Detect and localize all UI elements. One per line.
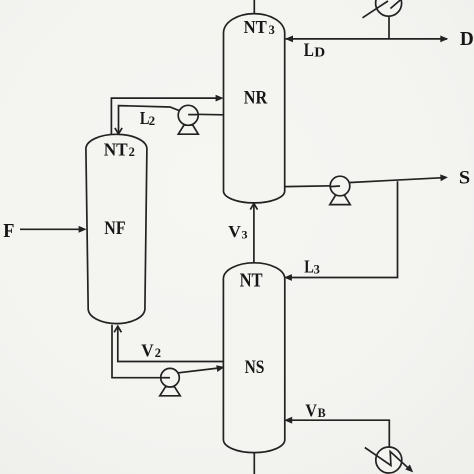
pump P3 on NF bottoms line <box>160 387 180 396</box>
svg-text:L: L <box>304 257 314 277</box>
arrowhead into NR left side <box>216 95 224 102</box>
arrowhead down into NT2 top <box>115 128 122 134</box>
arrowhead into NS left side <box>216 365 224 372</box>
svg-text:D: D <box>460 29 474 50</box>
arrowhead into NT top (L3) <box>284 274 292 281</box>
arrowhead up into NF bottom <box>114 326 121 332</box>
wire: NS bottoms line (cropped at bottom) <box>253 453 255 474</box>
wire: sidedraw S line through pump <box>285 178 441 187</box>
svg-text:V: V <box>141 340 153 360</box>
arrowhead to S <box>440 174 448 181</box>
wire: V2 vapor from NS to NF bottom <box>118 326 224 361</box>
wire: V3 vapor from NT to NR bottom <box>253 204 255 263</box>
arrowhead of reboiler heat arrow <box>405 465 413 473</box>
svg-text:2: 2 <box>129 145 135 159</box>
wire: NF bottoms through pump into NS <box>112 325 218 378</box>
svg-text:3: 3 <box>269 23 275 37</box>
wire: reflux LD / distillate D line <box>286 38 447 40</box>
svg-text:NT: NT <box>244 17 268 37</box>
wire: condenser outlet drop <box>388 15 390 39</box>
svg-text:2: 2 <box>149 113 156 128</box>
svg-text:B: B <box>318 405 326 420</box>
column NF (vessel with NT2 trays) <box>86 134 147 323</box>
reboiler (heat exchanger with heat arrow) <box>376 447 402 473</box>
column NR (vessel with NT3 trays) <box>224 14 285 203</box>
svg-text:NF: NF <box>104 218 125 239</box>
pump P1 on L2 line <box>178 125 198 134</box>
svg-text:NT: NT <box>240 269 264 291</box>
svg-text:3: 3 <box>242 227 248 241</box>
wire: liquid L2 from NR through pump into NT2 top <box>119 106 224 134</box>
svg-text:2: 2 <box>155 346 161 360</box>
wire: feed F line <box>20 228 80 230</box>
svg-text:V: V <box>228 222 241 241</box>
wire: vapor from NT2 top to NR (upper L2 line) <box>111 98 216 135</box>
svg-text:3: 3 <box>314 262 320 276</box>
svg-text:F: F <box>3 221 14 242</box>
pump P2 on sidedraw S line <box>330 195 350 204</box>
arrowhead to D <box>440 36 448 43</box>
svg-text:NS: NS <box>245 358 265 378</box>
wire: boilup VB from reboiler into NS <box>291 420 389 447</box>
svg-text:NR: NR <box>244 88 268 109</box>
svg-text:S: S <box>459 168 470 189</box>
svg-text:NT: NT <box>104 139 128 159</box>
arrowhead up into NR bottom <box>250 204 257 210</box>
arrowhead into NR (reflux LD) <box>285 36 293 43</box>
svg-text:L: L <box>304 41 314 61</box>
condenser (heat exchanger, cropped at top) <box>376 0 402 16</box>
wire: NR overhead vapor line (cropped at top) <box>253 0 255 15</box>
wire: branch from S line down to L3 into NT top <box>291 181 398 277</box>
column NS (vessel with NT trays) <box>223 263 284 453</box>
svg-text:D: D <box>314 45 325 60</box>
arrowhead into NF <box>79 226 87 233</box>
arrowhead into NS right side (VB) <box>284 417 292 424</box>
svg-text:V: V <box>305 401 317 421</box>
